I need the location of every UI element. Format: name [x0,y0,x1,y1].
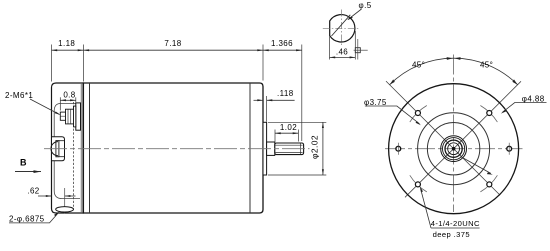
hidden dashed line brush card [73,102,75,209]
detail centerlines [323,10,359,47]
label phi.5 [347,1,371,20]
terminal washer [74,106,76,127]
thread callout 4-1/4-20UNC [420,186,480,239]
cap inner contour [54,103,80,198]
svg-text:.62: .62 [27,186,39,195]
dimension chain extension lines [52,45,302,142]
svg-text:φ.5: φ.5 [359,1,372,10]
bolt hole bottom-left [415,182,420,187]
dimension 0.8 [60,91,76,111]
dimension .62 [27,186,75,213]
svg-text:0.8: 0.8 [63,91,75,100]
hub rings [441,136,467,162]
bolt circle arcs [410,106,498,192]
detail diagonal slash [332,15,351,36]
diagonal NE-SW [405,81,521,197]
dimension 1.02 [275,123,298,142]
outer circle phi4.88 [389,84,519,214]
svg-text:1.366: 1.366 [271,39,293,48]
shaft shoulder [267,142,275,155]
motor body side view [83,83,263,213]
terminal board [76,103,81,130]
bolt hole top-right [487,111,492,116]
flange ring line [89,83,91,213]
phi3.75 opposite arrow [461,157,493,175]
dimension 1.18 [52,39,84,51]
svg-text:4-1/4-20UNC: 4-1/4-20UNC [431,219,480,228]
svg-text:φ3.75: φ3.75 [364,98,387,107]
pilot circle r26 [427,123,479,175]
datum target square [354,39,368,60]
svg-text:7.18: 7.18 [164,39,181,48]
label 2-phi.6875 [9,212,59,224]
dimension .46 [330,31,356,60]
svg-text:2-M6*1: 2-M6*1 [5,91,33,100]
centerline side view [44,148,310,150]
mounting hole ellipse [56,207,74,212]
inner circle r36 [418,113,490,185]
dimension phi2.02 [268,122,326,175]
svg-text:45°: 45° [480,60,493,69]
left end cap [52,83,84,213]
svg-text:.118: .118 [277,89,294,98]
end view vertical centerline [453,55,455,213]
svg-text:2-φ.6875: 2-φ.6875 [9,214,45,223]
side hole left [396,143,401,155]
bolt hole top-left [415,111,420,116]
svg-text:B: B [20,158,27,168]
svg-text:deep .375: deep .375 [433,230,470,239]
label 2-M6*1 [5,91,60,115]
label phi4.88 [501,95,547,114]
svg-text:1.02: 1.02 [280,123,297,132]
end view horizontal centerline [385,148,523,150]
terminal stud M6 [60,112,65,120]
dimension .118 [254,89,295,122]
dimension 7.18 [83,39,263,51]
diagonal NW-SE [386,81,500,195]
terminal nut [66,109,74,124]
view arrow B [15,158,41,174]
svg-text:φ2.02: φ2.02 [310,135,320,159]
dimension 1.366 [263,39,302,51]
shaft [275,143,304,155]
side hole right [507,143,512,155]
svg-text:.46: .46 [336,47,348,56]
svg-text:1.18: 1.18 [58,39,75,48]
bolt hole bottom-right [487,182,492,187]
detail view shaft cross-section circle [330,15,355,42]
45 degree arc left [390,57,454,85]
svg-text:45°: 45° [412,60,425,69]
shaft boss phi2.02 [263,122,267,175]
bearing dome on left face [51,137,65,161]
45 degree arc right [454,57,518,85]
end bell seam line [249,83,251,213]
label phi3.75 [364,98,421,125]
